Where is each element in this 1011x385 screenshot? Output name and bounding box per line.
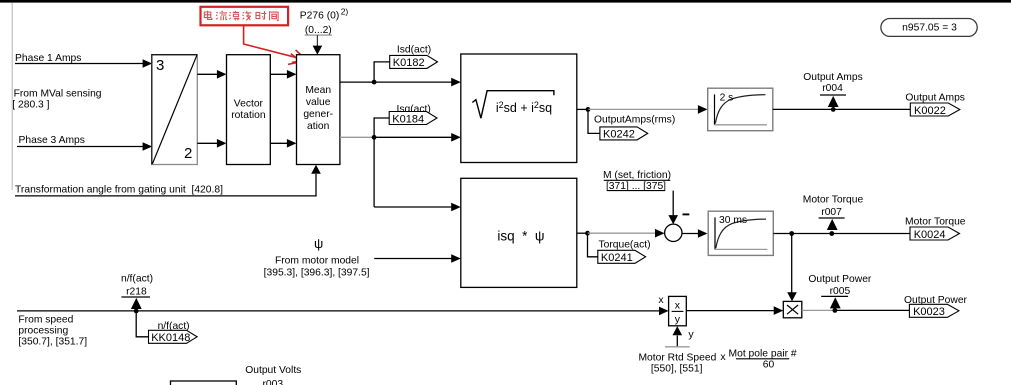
- connector K0241: [598, 250, 646, 264]
- wire 3/2 to vector rotation (bottom): [197, 139, 226, 148]
- block sqrt(i2sd + i2sq): [461, 54, 577, 163]
- svg-text:Vector: Vector: [234, 99, 264, 110]
- svg-text:n957.05 = 3: n957.05 = 3: [902, 22, 957, 33]
- svg-text:KK0148: KK0148: [151, 332, 190, 344]
- svg-text:Output Volts: Output Volts: [245, 365, 301, 376]
- svg-text:Phase 3 Amps: Phase 3 Amps: [19, 135, 85, 146]
- wire transformation angle into mean value block: [15, 165, 321, 196]
- wire Phase 1 Amps input: [15, 59, 152, 68]
- svg-text:Output Amps: Output Amps: [905, 93, 965, 104]
- block isq * psi: [461, 178, 577, 287]
- wire branch from torque line down to multiplier: [787, 234, 797, 302]
- svg-text:[ 280.3 ]: [ 280.3 ]: [12, 100, 49, 111]
- wire to summer (gray): [588, 229, 665, 238]
- svg-text:r005: r005: [830, 286, 851, 297]
- wire P276 into mean value block: [313, 35, 323, 55]
- label psi from motor model: [264, 236, 370, 279]
- wire Isq down to isq*psi block: [374, 137, 461, 211]
- svg-text:[395.3], [396.3], [397.5]: [395.3], [396.3], [397.5]: [264, 268, 370, 279]
- label Output Volts r003: [245, 365, 301, 385]
- wire divider to multiplier: [686, 306, 783, 315]
- connector K0023: [909, 304, 959, 318]
- junction OutputAmps tap: [586, 107, 591, 112]
- svg-text:K0184: K0184: [392, 113, 424, 125]
- junction Torque tap: [585, 231, 590, 236]
- wire Isq to sqrt block: [374, 133, 461, 142]
- wire tap to K0184: [374, 118, 389, 137]
- svg-text:2: 2: [184, 145, 192, 162]
- monitor r007 Motor Torque: [803, 195, 864, 236]
- monitor r218 n/f(act): [121, 273, 153, 313]
- svg-text:value: value: [306, 97, 331, 108]
- summer circle: [665, 214, 690, 241]
- svg-text:K0182: K0182: [393, 57, 425, 69]
- wire to smoothing block (gray): [588, 105, 708, 114]
- svg-text:2 s: 2 s: [720, 92, 734, 103]
- svg-text:r004: r004: [822, 83, 843, 94]
- svg-text:ψ: ψ: [314, 236, 323, 251]
- svg-text:Motor Rtd Speed: Motor Rtd Speed: [638, 353, 716, 364]
- block smoothing 30 ms: [708, 211, 773, 255]
- svg-text:[350.7], [351.7]: [350.7], [351.7]: [18, 337, 87, 348]
- input label From speed processing: [18, 315, 87, 348]
- svg-text:x: x: [720, 351, 726, 363]
- svg-text:y: y: [675, 313, 681, 325]
- wire vector rotation to mean value (bottom): [270, 139, 296, 148]
- wire 3/2 to vector rotation (top): [197, 70, 226, 79]
- tag n957.05 = 3: [881, 19, 977, 37]
- svg-text:processing: processing: [18, 326, 68, 337]
- label fraction Mot pole pair # / 60: [729, 348, 797, 370]
- svg-text:From MVal sensing: From MVal sensing: [14, 89, 102, 100]
- svg-text:r218: r218: [126, 286, 147, 297]
- svg-text:Output Power: Output Power: [808, 274, 872, 285]
- svg-text:r003: r003: [262, 379, 283, 385]
- svg-text:K0023: K0023: [913, 306, 945, 318]
- wire 30ms to K0024: [773, 233, 910, 235]
- connector K0242: [600, 127, 648, 141]
- label M (set, friction): [603, 170, 671, 192]
- connector K0184: [389, 112, 437, 126]
- svg-text:Torque(act): Torque(act): [598, 239, 650, 250]
- connector K0024: [910, 227, 960, 241]
- svg-text:Motor Torque: Motor Torque: [803, 195, 864, 206]
- input label From MVal sensing [280.3]: [12, 89, 102, 111]
- wire mean value Isd output to sqrt block: [340, 78, 461, 87]
- callout box 电流滤波时间 (red annotation): [201, 7, 308, 65]
- wire tap to K0242: [588, 109, 600, 133]
- wire smoothing to K0022: [773, 108, 911, 110]
- svg-text:y: y: [688, 328, 694, 340]
- block output volts smoothing (partially visible): [171, 381, 237, 385]
- junction Isq tap: [372, 135, 377, 140]
- wire mean value Isq output (gray segment): [340, 136, 374, 138]
- connector K0182: [390, 55, 438, 69]
- label Motor Rtd Speed [550],[551]: [638, 353, 716, 375]
- svg-text:isq * ψ: isq * ψ: [497, 229, 544, 244]
- svg-text:Mot pole pair #: Mot pole pair #: [729, 348, 797, 359]
- svg-text:OutputAmps(rms): OutputAmps(rms): [594, 114, 675, 125]
- svg-text:Isd(act): Isd(act): [397, 45, 431, 56]
- svg-text:K0242: K0242: [603, 129, 635, 141]
- block multiplier: [783, 301, 802, 317]
- wire Phase 3 Amps input: [17, 142, 152, 151]
- svg-text:(0...2): (0...2): [305, 25, 332, 36]
- wire vector rotation to mean value (top): [270, 70, 296, 79]
- junction Isd tap: [372, 80, 377, 85]
- svg-text:gener-: gener-: [303, 109, 333, 120]
- block 3-to-2 phase transform: [152, 55, 198, 165]
- wire M into summer: [668, 191, 678, 225]
- svg-text:Output Amps: Output Amps: [803, 72, 863, 83]
- svg-text:i2sd + i2sq: i2sd + i2sq: [496, 100, 552, 115]
- parameter P276 (0) label: [300, 7, 349, 36]
- block mean value generation: [297, 55, 340, 165]
- svg-text:K0022: K0022: [914, 105, 946, 117]
- wire tap to K0241: [588, 233, 598, 257]
- svg-text:n/f(act): n/f(act): [121, 273, 153, 284]
- svg-text:Phase 1 Amps: Phase 1 Amps: [15, 53, 81, 64]
- wire to K0023: [835, 309, 909, 311]
- connector KK0148: [149, 330, 198, 344]
- svg-text:rotation: rotation: [231, 110, 266, 121]
- wire psi into isq*psi block: [374, 254, 461, 263]
- svg-text:30 ms: 30 ms: [719, 215, 747, 226]
- connector K0022: [910, 103, 960, 117]
- monitor r004 Output Amps: [803, 72, 863, 112]
- svg-text:Motor Torque: Motor Torque: [905, 217, 966, 228]
- wire multiplier output (gray): [802, 309, 835, 311]
- svg-text:K0024: K0024: [914, 229, 946, 241]
- svg-text:Mean: Mean: [305, 85, 331, 96]
- wire tap to KK0148: [136, 311, 148, 337]
- wire Motor Rtd Speed into divider: [665, 326, 690, 347]
- svg-text:From speed: From speed: [18, 315, 73, 326]
- svg-text:x: x: [658, 294, 664, 306]
- svg-text:60: 60: [763, 360, 775, 371]
- wire tap to K0182: [374, 62, 390, 82]
- svg-text:P276 (0): P276 (0): [300, 11, 340, 22]
- svg-text:M (set, friction): M (set, friction): [603, 170, 671, 181]
- svg-text:ation: ation: [307, 121, 330, 132]
- block vector rotation: [227, 55, 271, 165]
- svg-text:From motor model: From motor model: [275, 255, 359, 266]
- svg-text:3: 3: [156, 57, 164, 74]
- wire torque output: [577, 232, 588, 234]
- svg-text:r007: r007: [821, 207, 842, 218]
- wire speed line to divider: [17, 307, 669, 316]
- wire summer to 30ms block: [682, 229, 708, 238]
- junction branch to multiplier: [789, 231, 794, 236]
- svg-text:2): 2): [341, 7, 349, 17]
- block divider x/y: [669, 296, 687, 325]
- svg-text:K0241: K0241: [601, 252, 633, 264]
- wire sqrt output: [577, 108, 588, 110]
- svg-text:[550], [551]: [550], [551]: [651, 363, 703, 374]
- svg-text:x: x: [675, 299, 681, 311]
- svg-text:Transformation angle from gati: Transformation angle from gating unit [4…: [15, 185, 223, 196]
- monitor r005 Output Power: [808, 274, 872, 313]
- block smoothing 2 s: [708, 88, 773, 131]
